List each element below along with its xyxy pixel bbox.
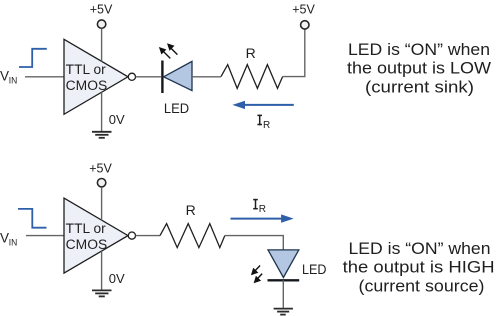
svg-text:R: R [263,120,270,131]
output bubble (bottom gate) [128,232,135,239]
svg-text:CMOS: CMOS [66,78,108,93]
current arrow IR (bottom, pointing right) [231,214,294,222]
output bubble (top gate) [128,73,135,80]
wire: gate to ground (top) [101,92,103,131]
+5V terminal circle (top gate) [97,20,105,28]
svg-text:TTL or: TTL or [66,221,107,236]
annotation text (bottom) [343,240,495,295]
wire: bubble to resistor (bottom) [136,235,160,237]
annotation text (top) [347,41,491,96]
LED light arrow 2 (bottom) [254,274,263,284]
LED D1 triangle (top, pointing left) [164,61,192,90]
svg-text:+5V: +5V [89,161,112,175]
svg-text:IN: IN [9,76,18,87]
svg-text:R: R [246,45,256,61]
svg-text:V: V [0,69,9,84]
node VIN (top input) [0,69,17,87]
svg-text:IN: IN [9,238,18,249]
LED D2 cathode bar (bottom) [268,279,300,281]
svg-text:V: V [0,231,9,246]
svg-text:+5V: +5V [90,3,113,17]
svg-text:the output is LOW: the output is LOW [347,60,491,78]
current arrow IR (top, pointing left) [232,101,293,109]
svg-text:0V: 0V [109,112,125,127]
node VIN (bottom input) [0,231,17,249]
wire: resistor to LED (bottom) [225,236,283,250]
wire: LED to resistor (top) [192,76,221,78]
svg-text:TTL or: TTL or [66,62,107,77]
svg-text:(current source): (current source) [359,277,485,295]
ground (top gate) [92,132,112,138]
svg-text:the output is HIGH: the output is HIGH [343,259,495,277]
input pulse waveform (top, rising edge) [19,49,47,67]
svg-text:LED is “ON” when: LED is “ON” when [348,41,490,59]
wire: bubble to LED (top) [136,76,161,78]
svg-text:LED is “ON” when: LED is “ON” when [349,240,491,258]
LED light arrow 1 (bottom) [251,266,260,276]
svg-text:LED: LED [164,101,190,116]
wire: +5V terminal to gate (top) [101,29,103,62]
wire: VIN to gate input (bottom) [26,235,64,237]
resistor R (bottom) [160,224,225,248]
svg-text:(current sink): (current sink) [365,78,474,96]
svg-text:R: R [259,204,266,215]
svg-text:LED: LED [302,262,327,277]
wire: +5V terminal to gate (bottom) [101,187,103,220]
gate U1 triangle TTL or CMOS (top) [64,39,128,114]
IR label (bottom) [253,199,258,210]
resistor R (top) [221,65,283,89]
wire: VIN to gate input (top) [25,76,64,78]
wire: gate to ground (bottom) [101,251,103,290]
IR label (top) [257,115,262,126]
LED D1 cathode bar (top) [161,61,163,94]
svg-text:0V: 0V [109,271,125,286]
svg-text:R: R [186,202,196,218]
svg-text:CMOS: CMOS [66,237,108,252]
LED light arrow 2 (top) [167,43,177,54]
ground (bottom gate) [92,290,112,296]
wire: resistor to +5V (top right) [283,29,305,76]
svg-text:+5V: +5V [292,3,315,17]
LED light arrow 1 (top) [159,47,170,58]
wire: LED to ground (bottom) [282,280,284,308]
gate U2 triangle TTL or CMOS (bottom) [64,198,128,273]
+5V terminal circle (bottom gate) [97,179,105,187]
+5V terminal circle (top right) [301,21,309,29]
LED D2 triangle (bottom, pointing down) [268,250,299,278]
ground (bottom LED) [274,309,293,315]
input pulse waveform (bottom, falling edge) [18,209,47,228]
